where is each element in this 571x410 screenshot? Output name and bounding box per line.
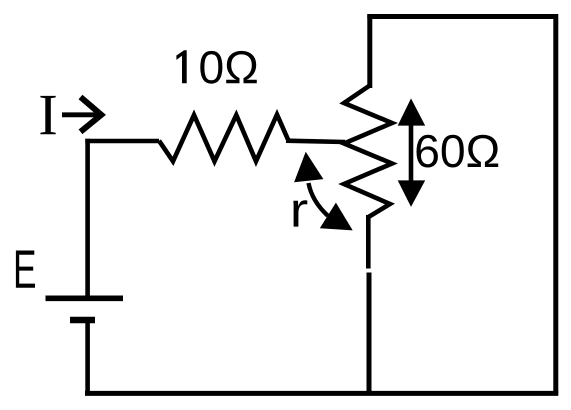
wire from R1 to R2 tap [286,141,345,142]
wire: bottom rail [85,391,558,396]
resistor R2 60ohm vertical zigzag [344,86,392,217]
label 60ohm [417,135,499,168]
battery E short plate [70,317,95,323]
wire: top rail [367,14,556,19]
current arrow [62,97,101,132]
label 10ohm [176,50,256,83]
wire battery minus to bottom [85,322,90,393]
label r [293,200,307,226]
wire below R2 to bottom (lower segment) [367,273,372,394]
label E [16,251,35,288]
wire: top-left corner to R1 left lead [85,139,159,144]
battery E long plate [46,295,124,301]
wire below R2 (upper segment) [366,215,371,269]
wire: R2 top lead up to top rail [367,15,372,89]
resistor R1 10ohm zigzag [159,115,289,162]
wire: right side down [553,14,558,393]
wiper curved arrow [294,152,353,231]
label I [40,96,55,134]
double arrow across R2 [398,98,426,206]
wire: battery positive plate up the left side [85,139,90,296]
